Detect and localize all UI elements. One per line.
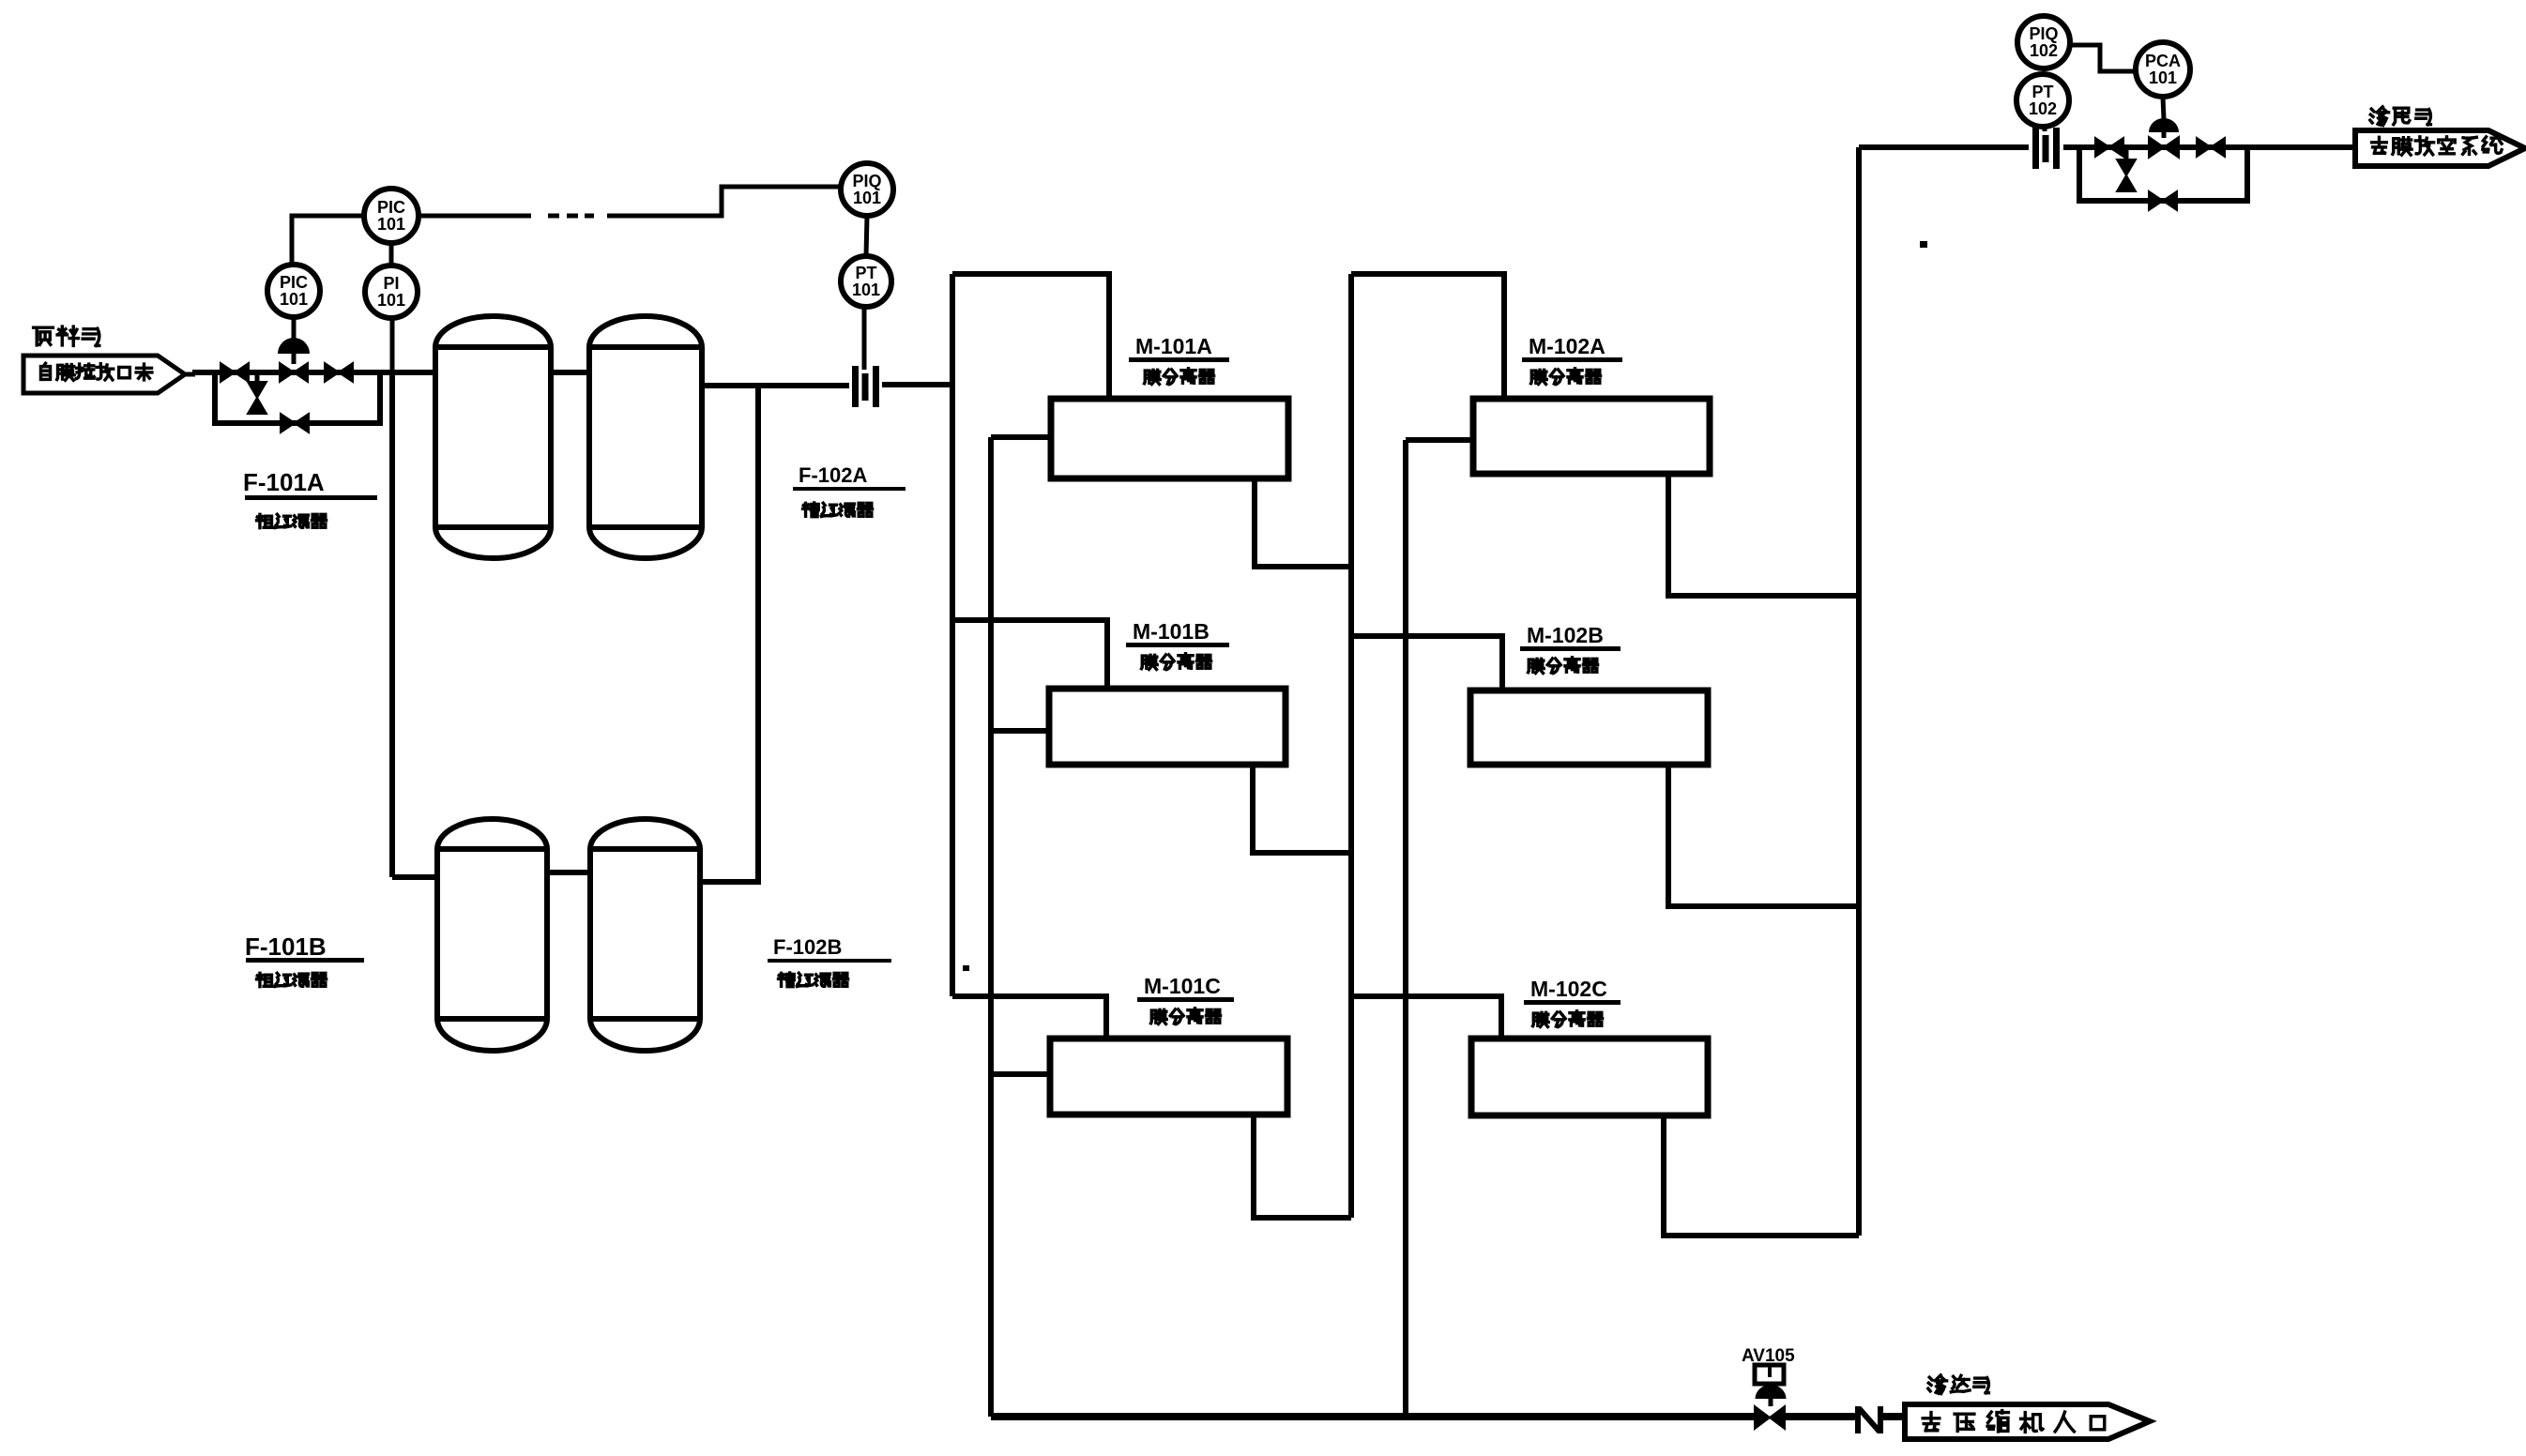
label 膜分离器 2A [1531, 370, 1547, 384]
wire F-102A to membrane bank 1 header [882, 382, 952, 387]
wire membrane bank2 feed header [1348, 274, 1354, 1218]
svg-text:PT: PT [2031, 83, 2053, 101]
svg-text:PIQ: PIQ [852, 172, 881, 190]
svg-text:PT: PT [855, 264, 876, 282]
wire bank1 branch to M-101B [952, 620, 1107, 689]
instrument PT-101 [841, 256, 891, 307]
filter inline symbol on top line [2032, 128, 2039, 169]
valve AV105 solenoid box [1755, 1365, 1784, 1384]
wire retentate top line [1859, 144, 2029, 150]
wire F-101A outlet to F-102A filter [702, 383, 849, 388]
label 粗过滤器 (coarse filter) B [257, 973, 273, 986]
instrument PT-102 [2016, 74, 2069, 127]
label 膜分离器 2B [1529, 659, 1545, 673]
wire PIQ-101 to PT-101 [866, 216, 867, 256]
wire top line after filter [2063, 144, 2355, 150]
wire M-101A permeate port [991, 434, 1052, 440]
instrument PIQ-102 [2017, 16, 2070, 68]
node dot near M-101C [963, 965, 969, 971]
control valve PV-102 body [2162, 132, 2167, 138]
wire bank1 branch to M-101A [952, 274, 1109, 399]
membrane module M-101A [1051, 399, 1288, 478]
wire M-102A permeate port [1406, 437, 1473, 443]
wire bank2 permeate header [1403, 440, 1408, 1417]
outlet flag 去压缩机入口 (to compressor inlet) [1905, 1404, 2150, 1439]
svg-text:PI: PI [383, 274, 399, 293]
svg-text:PCA: PCA [2145, 52, 2181, 70]
wire bypass loop around control valve [215, 372, 380, 423]
svg-text:F-102B: F-102B [773, 935, 842, 959]
svg-text:PIC: PIC [377, 198, 405, 217]
wire main feed line y397 [181, 372, 195, 377]
vessel F-101A left (filter vessel 1) [435, 316, 551, 558]
check valve [1855, 1406, 1861, 1433]
inlet flag 自膜撬放口来 (from membrane skid vent) [23, 356, 185, 393]
instrument PIQ-101 [841, 163, 893, 216]
svg-text:101: 101 [377, 291, 405, 310]
svg-text:101: 101 [852, 281, 880, 299]
wire PT-101 tap to filter F-102A [862, 307, 867, 370]
instrument PCA-101 [2136, 42, 2190, 97]
node dot below top line [1920, 241, 1927, 248]
membrane module M-101B [1049, 689, 1286, 765]
svg-text:101: 101 [853, 189, 881, 207]
wire bank1 branch to M-101C [952, 996, 1106, 1039]
svg-text:F-102A: F-102A [799, 463, 867, 487]
wire permeate line to outlet flag [1883, 1413, 1905, 1420]
wire membrane bank1 feed header [950, 274, 955, 996]
wire between F-101A vessels [551, 370, 589, 375]
wire bypass around PV-102 [2079, 147, 2247, 201]
wire residue riser to top line [1856, 147, 1862, 1236]
wire signal PIQ-102 to PCA-101 [2070, 45, 2136, 71]
wire bank2 branch to M-102C [1351, 996, 1501, 1039]
svg-text:PIC: PIC [280, 273, 308, 292]
svg-text:M-102C: M-102C [1530, 977, 1607, 1001]
wire signal PIC-101 top to PIC-101 left [292, 216, 364, 265]
wire M-101C residue to bank2 header [1254, 1115, 1351, 1218]
vessel F-101B left (standby filter vessel 1) [437, 819, 547, 1051]
svg-text:M-101C: M-101C [1144, 974, 1221, 998]
wire PI-101 tap down to main line [390, 318, 395, 372]
wire M-101B residue to bank2 header [1253, 765, 1351, 853]
svg-text:F-101B: F-101B [245, 933, 327, 961]
wire M-101C permeate port [991, 1071, 1050, 1077]
svg-text:M-102A: M-102A [1529, 334, 1605, 358]
svg-text:101: 101 [280, 290, 308, 309]
svg-text:M-102B: M-102B [1527, 623, 1604, 647]
label 膜分离器 1C [1151, 1009, 1167, 1024]
label 渗透气 (permeate gas) [1928, 1375, 1947, 1394]
wire feed down-line to F-101B vessels [389, 372, 395, 877]
wire F-101B outlet riser to main line [700, 386, 758, 882]
valve AV105 actuator dome [1756, 1385, 1787, 1399]
wire M-102A residue to riser [1668, 474, 1859, 596]
label 粗过滤器 (coarse filter) A [257, 514, 273, 527]
wire stem PIC-101 to actuator [292, 316, 297, 339]
control valve PV-101 body [280, 363, 308, 382]
instrument PIC-101 (top) [364, 189, 418, 243]
wire M-102C residue to riser [1664, 1115, 1859, 1236]
label 膜分离器 1B [1142, 655, 1158, 669]
instrument PI-101 [365, 265, 418, 318]
membrane module M-102C [1471, 1039, 1708, 1115]
membrane module M-101C [1050, 1039, 1287, 1115]
wire signal dashed from PIC-101 to top-right [418, 214, 531, 219]
valve top-line block left [2095, 138, 2123, 157]
wire between F-101B vessels [547, 870, 590, 875]
wire M-101A residue to bank2 header [1255, 478, 1351, 567]
label 精过滤器 (fine filter) B [779, 973, 795, 987]
valve top-line block right [2197, 138, 2225, 157]
svg-text:101: 101 [377, 215, 405, 234]
valve AV105 body [1755, 1406, 1785, 1429]
label 精过滤器 (fine filter) A [803, 503, 819, 517]
valve inlet block V1 [221, 363, 249, 382]
wire PT-102 tap to filter [2043, 127, 2047, 131]
svg-text:M-101B: M-101B [1133, 619, 1210, 644]
membrane module M-102B [1470, 690, 1708, 765]
svg-text:PIQ: PIQ [2029, 24, 2058, 43]
wire M-101B permeate port [991, 728, 1049, 734]
wire permeate bottom line [991, 1413, 1755, 1420]
valve drain (vent) below main line [255, 372, 260, 383]
instrument PIC-101 (controller, left) [267, 265, 320, 317]
svg-text:102: 102 [2030, 41, 2058, 60]
svg-text:F-101A: F-101A [243, 468, 325, 496]
wire elbow into F-101B [392, 874, 437, 880]
wire bank2 branch to M-102B [1351, 636, 1502, 690]
svg-text:102: 102 [2029, 99, 2057, 118]
vessel F-101B right (standby filter vessel 2) [590, 819, 700, 1051]
inlet label 原料气 (raw gas) [34, 327, 53, 345]
label 膜分离器 (membrane separator) 1A [1145, 370, 1161, 384]
wire M-102B residue to riser [1668, 765, 1859, 906]
filter F-102A inline symbol [852, 366, 859, 407]
svg-text:M-101A: M-101A [1135, 334, 1212, 358]
wire signal PIC-101 top to PI-101 [389, 243, 394, 265]
valve top bypass [2149, 191, 2177, 210]
label 膜分离器 2C [1533, 1012, 1549, 1026]
valve bypass [281, 414, 309, 432]
wire bank1 permeate header [988, 437, 994, 1417]
outlet flag 去膜放空系统 (to vent system) [2355, 130, 2525, 166]
membrane module M-102A [1473, 399, 1710, 474]
valve block V2 after control valve [325, 363, 353, 382]
svg-text:101: 101 [2149, 68, 2177, 87]
valve vent below top line [2124, 147, 2129, 159]
wire bank2 branch to M-102A [1351, 274, 1504, 399]
vessel F-101A right (filter vessel 2) [589, 316, 702, 558]
label 渗尾气 (residue gas) [2370, 107, 2389, 126]
wire permeate line to check valve [1785, 1413, 1855, 1420]
control valve PV-101 actuator dome [292, 354, 297, 364]
control valve PV-102 actuator dome [2163, 97, 2164, 119]
